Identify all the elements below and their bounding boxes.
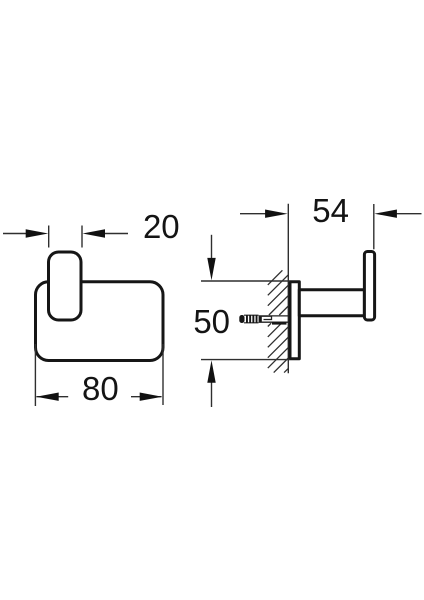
arrow bottom of 50 (points up)	[207, 360, 215, 383]
wall plate (side view of body)	[290, 282, 299, 359]
arrow left of 80	[36, 393, 59, 401]
body (front view rounded rectangle)	[36, 282, 164, 361]
svg-text:50: 50	[193, 303, 230, 340]
extension line left of 80	[34, 344, 36, 406]
wire dimension line left tail of 54	[240, 213, 266, 215]
svg-text:20: 20	[143, 208, 180, 245]
extension line right of 54	[373, 204, 375, 249]
arrow right of 80	[140, 393, 163, 401]
arrow right of 54 (points left at cap)	[374, 210, 397, 218]
wire dimension line below 50	[211, 382, 213, 407]
wire dimension line right segment of 80	[131, 396, 162, 398]
wire dimension line right tail of 20	[105, 233, 129, 235]
extension line bottom of 50	[201, 359, 290, 361]
extension line right of 80	[162, 344, 164, 405]
extension line left of 20	[48, 226, 50, 248]
dimension 50	[201, 235, 290, 407]
wall edge (side view, also extension line of 54)	[287, 204, 289, 374]
wire dimension line right tail of 54	[397, 213, 422, 215]
arrow top of 50 (points down)	[207, 258, 215, 281]
dimension 20	[3, 226, 128, 248]
screw shaft into wall	[259, 316, 289, 322]
extension line top of 50	[201, 280, 290, 282]
hook post (front view)	[49, 252, 82, 320]
hook cap (side view of post)	[364, 252, 374, 321]
wire dimension line left segment of 80	[36, 396, 68, 398]
svg-text:80: 80	[82, 370, 119, 407]
arrow right of 20	[83, 229, 106, 237]
screw anchor (wall plug with ribs)	[239, 315, 262, 323]
wire dimension line left tail of 20	[3, 233, 27, 235]
arm (side view)	[299, 290, 364, 316]
wall hatching	[268, 270, 289, 372]
arrow left of 20	[26, 229, 49, 237]
dimension 54	[240, 204, 422, 249]
wire dimension line above 50	[211, 235, 213, 258]
extension line right of 20	[81, 226, 83, 248]
arrow left of 54 (points right at wall)	[265, 210, 288, 218]
dimension 80	[35, 344, 163, 406]
svg-text:54: 54	[312, 192, 349, 229]
